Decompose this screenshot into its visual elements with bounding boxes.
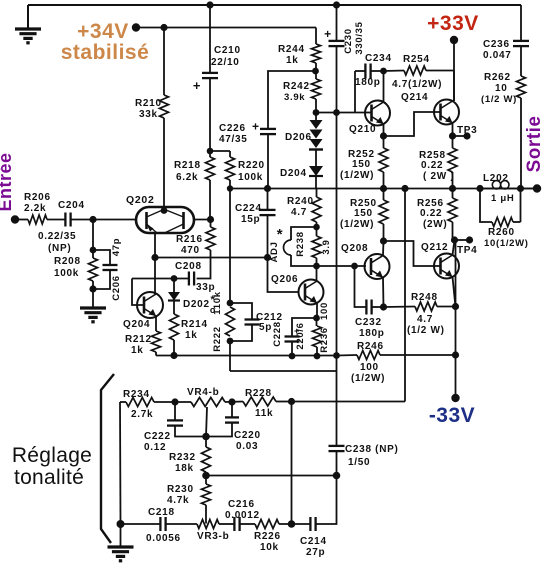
svg-text:C208: C208 (175, 261, 202, 272)
svg-text:10: 10 (495, 83, 508, 94)
svg-text:R212: R212 (125, 334, 152, 345)
svg-text:VR4-b: VR4-b (187, 387, 219, 398)
node +33V terminal (450, 36, 458, 44)
node diode top (313, 109, 320, 116)
wire C238 lower (336, 451, 338, 475)
wire R208 lower (92, 281, 94, 289)
wire Q214 emitter (452, 123, 454, 136)
wire R234 left drop (119, 402, 122, 524)
resistor R206 2.2k (28, 215, 47, 224)
svg-text:6.2k: 6.2k (176, 172, 198, 183)
wire Q204 emitter (155, 316, 157, 331)
capacitor C212 5p (230, 303, 252, 319)
node R222 top (227, 300, 234, 307)
wire C208 left (132, 278, 189, 280)
svg-text:33k: 33k (139, 109, 158, 120)
svg-text:10k: 10k (260, 542, 279, 553)
svg-text:330/35: 330/35 (354, 21, 365, 54)
svg-text:(1/2W): (1/2W) (340, 170, 374, 181)
svg-text:C214: C214 (300, 536, 327, 547)
svg-text:TP4: TP4 (457, 245, 477, 256)
inductor L202 1uH (480, 188, 521, 190)
svg-text:4.7: 4.7 (417, 314, 433, 325)
wire R222 lower to tone (229, 341, 231, 371)
wire R220 lower (229, 180, 231, 189)
node feedback top (401, 185, 408, 192)
node C220 top (228, 398, 235, 405)
svg-text:Entrée: Entrée (0, 152, 15, 211)
node C238 bottom (333, 472, 341, 480)
wire +34V rail (136, 27, 316, 29)
svg-text:R234: R234 (123, 389, 150, 400)
svg-text:3.9: 3.9 (321, 239, 332, 254)
wire Q204 collector (154, 258, 156, 295)
capacitor C216 0.0012 (233, 517, 235, 531)
wire R228 right (276, 401, 292, 403)
svg-text:180p: 180p (355, 77, 381, 88)
svg-text:D206: D206 (285, 132, 312, 143)
svg-text:150: 150 (354, 208, 373, 219)
svg-text:+: + (324, 27, 332, 41)
node output (517, 185, 524, 192)
capacitor C224 15p (267, 189, 269, 210)
wire mid rail (230, 188, 537, 190)
node R250 bottom (380, 237, 387, 244)
svg-text:*: * (277, 226, 284, 243)
node R228 right (288, 398, 295, 405)
svg-text:1k: 1k (185, 330, 198, 341)
resistor R252 150 1/2W (383, 136, 385, 148)
svg-text:33p: 33p (196, 282, 215, 293)
svg-text:Réglage: Réglage (12, 444, 92, 467)
svg-text:R222: R222 (212, 326, 223, 352)
wire Q214 collector (453, 100, 455, 102)
resistor R250 150 1/2W (383, 189, 385, 201)
wire C218-VR3 (166, 523, 197, 525)
svg-text:R260: R260 (488, 227, 515, 238)
resistor R220 100k (229, 151, 231, 157)
svg-text:R254: R254 (403, 54, 430, 65)
resistor R214 1k (173, 301, 175, 315)
wire R210 upper (163, 28, 165, 96)
wire Q208 base (317, 265, 367, 267)
svg-text:27p: 27p (306, 547, 325, 558)
node Q204 collector (151, 254, 158, 261)
svg-text:47/35: 47/35 (219, 134, 248, 145)
node C230 base link (333, 109, 340, 116)
resistor R236 100 (316, 318, 318, 326)
wire C214 right (316, 476, 337, 525)
wire tone row bottom left (121, 523, 161, 525)
svg-text:C204: C204 (58, 200, 85, 211)
svg-text:R244: R244 (278, 44, 305, 55)
svg-text:C224: C224 (235, 203, 262, 214)
wire R242 lower (315, 99, 317, 113)
wire mirror node rail (155, 257, 268, 259)
node R240-R238 (316, 222, 318, 227)
node R246 right (452, 351, 459, 358)
wire Q212 collector (453, 240, 455, 255)
svg-text:4.7k: 4.7k (167, 495, 189, 506)
svg-text:11k: 11k (255, 408, 273, 419)
svg-text:4.7(1/2W): 4.7(1/2W) (392, 79, 442, 90)
resistor R256 0.22 2W (452, 189, 454, 199)
svg-text:0.12: 0.12 (144, 442, 166, 453)
svg-text:100: 100 (319, 302, 330, 320)
node TP4 (451, 236, 458, 243)
resistor R248 4.7 1/2W (384, 306, 416, 309)
transistor Q210 (365, 101, 390, 126)
wire -33V column (455, 240, 457, 398)
svg-text:R206: R206 (24, 192, 51, 203)
svg-text:R232: R232 (169, 452, 196, 463)
svg-text:18k: 18k (175, 463, 194, 474)
svg-text:Q206: Q206 (271, 274, 298, 285)
wire C224 lower (267, 215, 269, 257)
wire +33V feed (453, 40, 455, 101)
node mid rail left (227, 185, 233, 191)
capacitor C218 0.0056 (159, 517, 161, 531)
svg-text:R214: R214 (181, 319, 208, 330)
wire Q206 emitter (316, 303, 318, 318)
wire input (15, 219, 28, 221)
wire C236-R262 (520, 46, 522, 76)
node R248 right (452, 303, 459, 310)
diode D202 (173, 279, 175, 293)
svg-text:Q212: Q212 (421, 242, 448, 253)
resistor R218 6.2k (209, 155, 211, 157)
node R226-C214 (288, 520, 296, 528)
node R222 bottom (227, 338, 234, 345)
svg-text:L202: L202 (483, 173, 509, 184)
resistor R212 1k (152, 331, 161, 352)
resistor R228 11k (243, 397, 276, 406)
svg-text:Q202: Q202 (126, 194, 155, 206)
node C206 top (90, 247, 97, 254)
wire Q208-Q212 link (384, 241, 441, 266)
svg-text:D204: D204 (280, 168, 307, 179)
wire Q208 emitter (382, 278, 385, 307)
wire VR3-C216 (219, 523, 234, 525)
bracket tone section (101, 374, 114, 543)
node R244-R242 (312, 68, 319, 75)
svg-text:R248: R248 (411, 292, 438, 303)
node input-R208 (89, 216, 96, 223)
node top rail C210 (206, 1, 213, 8)
ground input (92, 289, 94, 308)
wire VR4 wiper (206, 407, 207, 437)
capacitor C228 220/6 (292, 318, 317, 336)
svg-text:R208: R208 (54, 256, 81, 267)
svg-text:tonalité: tonalité (14, 466, 84, 489)
svg-text:Q214: Q214 (401, 92, 428, 103)
wire Q208 collector (382, 241, 385, 255)
svg-text:100k: 100k (54, 268, 79, 279)
svg-text:0.047: 0.047 (483, 50, 512, 61)
node C230 top (333, 1, 340, 8)
svg-text:C222: C222 (144, 431, 171, 442)
transistor Q212 (434, 254, 459, 279)
wire R216 lower (197, 250, 211, 279)
svg-text:-33V: -33V (429, 404, 475, 427)
svg-text:(1/2 W): (1/2 W) (481, 94, 517, 105)
svg-text:2.7k: 2.7k (131, 409, 153, 420)
wire ground top rail (28, 4, 521, 6)
capacitor C204 0.22/35 NP (64, 213, 66, 227)
capacitor C238 NP 1/50 (329, 445, 345, 447)
svg-text:R236: R236 (319, 327, 330, 353)
node R218 top (207, 148, 214, 155)
wire R262 lower (520, 98, 522, 189)
resistor R230 4.7k (205, 476, 207, 485)
svg-text:C218: C218 (148, 507, 175, 518)
wire L202 loop (480, 189, 492, 223)
svg-text:R216: R216 (176, 234, 203, 245)
svg-text:150: 150 (352, 159, 371, 170)
resistor R240 4.7 (316, 189, 318, 198)
node Q202 collector top (161, 207, 168, 214)
node R238 bottom (313, 263, 320, 270)
svg-text:Sortie: Sortie (524, 116, 545, 173)
resistor R234 2.7k (126, 398, 154, 407)
svg-text:Q210: Q210 (349, 124, 376, 135)
resistor R242 3.9k (315, 71, 317, 79)
wire R234-VR4 (154, 401, 191, 403)
svg-text:R240: R240 (287, 196, 314, 207)
transistor Q208 (365, 254, 390, 279)
svg-text:R242: R242 (283, 81, 310, 92)
node R236 bottom (314, 353, 321, 360)
node Q210 emitter (380, 132, 387, 139)
wire right top (520, 5, 522, 41)
svg-text:(1/2W): (1/2W) (351, 373, 385, 384)
node +34V terminal (132, 23, 140, 31)
capacitor C220 0.03 (231, 402, 233, 417)
capacitor C206 47p loop (93, 250, 110, 265)
wire C226 top link (268, 71, 315, 129)
capacitor C210 22/10 (202, 72, 218, 74)
wire feedback bottom drop (291, 402, 293, 525)
wire R206-C204 (47, 219, 65, 221)
resistor R232 18k (205, 437, 207, 448)
wire R244 top (315, 28, 317, 45)
capacitor C236 0.047 (513, 40, 529, 42)
svg-text:C210: C210 (214, 45, 241, 56)
svg-text:47p: 47p (111, 238, 122, 256)
capacitor C234 180p (354, 71, 356, 113)
wire C230 lower (336, 46, 338, 355)
svg-text:R246: R246 (357, 341, 384, 352)
wire Q210 base (366, 112, 372, 114)
wire Q202 emitter right (194, 219, 211, 221)
svg-text:(2W): (2W) (423, 219, 447, 230)
node wiper junction (202, 433, 210, 441)
svg-text:0.22/35: 0.22/35 (38, 231, 76, 242)
wire R242 to Q210 base (316, 112, 366, 114)
resistor R244 1k (312, 44, 321, 63)
node C234-R254 (380, 68, 387, 75)
wire C216-R226 (240, 523, 255, 525)
resistor R226 10k (255, 520, 279, 529)
svg-text:C236: C236 (483, 39, 510, 50)
node ground mid-left (89, 285, 96, 292)
svg-text:Q208: Q208 (341, 243, 368, 254)
wire R212 lower (155, 352, 157, 356)
svg-text:R228: R228 (245, 388, 272, 399)
svg-text:+: + (252, 120, 260, 134)
diode D204 (315, 150, 317, 167)
node C224 top (264, 185, 271, 192)
capacitor C226 47/35 (260, 128, 276, 130)
svg-text:+34V: +34V (77, 20, 129, 43)
svg-text:0.0056: 0.0056 (146, 533, 181, 544)
svg-text:100k: 100k (238, 172, 263, 183)
ADJ loop (291, 227, 317, 240)
wire Q210 emitter (383, 124, 385, 136)
svg-text:C220: C220 (234, 430, 261, 441)
wire Q210 collector (383, 71, 385, 102)
svg-text:R226: R226 (254, 531, 281, 542)
svg-text:220/6: 220/6 (295, 322, 306, 349)
transistor Q204 (137, 292, 163, 318)
wire Q204 base (132, 279, 144, 306)
node C238 column (333, 352, 340, 359)
svg-text:2.2k: 2.2k (24, 203, 46, 214)
svg-text:TP3: TP3 (457, 125, 477, 136)
node tone ground (117, 520, 125, 528)
capacitor C232 180p (355, 266, 367, 307)
wire VR4-R228 (225, 401, 243, 404)
node Q206 emitter (313, 315, 320, 322)
svg-text:0.0012: 0.0012 (225, 510, 260, 521)
node input terminal (11, 215, 19, 223)
wire R214 lower (173, 340, 175, 356)
wire feedback vertical (404, 189, 406, 402)
svg-text:R210: R210 (135, 98, 162, 109)
node Sortie terminal (533, 184, 541, 192)
node -33V terminal (451, 394, 459, 402)
svg-text:(1/2 W): (1/2 W) (407, 325, 445, 336)
svg-text:10(1/2W): 10(1/2W) (484, 238, 529, 249)
wire Q202 bottom pin (154, 233, 156, 258)
wire mid tone row (206, 475, 337, 477)
wire R244 lower (315, 63, 317, 71)
svg-text:1/50: 1/50 (348, 457, 370, 468)
node R252 bottom (380, 185, 387, 192)
svg-text:1 μH: 1 μH (491, 193, 514, 204)
svg-text:1k: 1k (286, 55, 299, 66)
svg-text:4.7: 4.7 (291, 207, 307, 218)
svg-text:0.22: 0.22 (421, 160, 443, 171)
resistor R222 110k (226, 307, 235, 336)
capacitor C230 330/35 (329, 40, 345, 42)
svg-text:180p: 180p (359, 328, 385, 339)
node C222 top (171, 398, 178, 405)
svg-text:(NP): (NP) (48, 243, 71, 254)
wire Q212 emitter (453, 277, 456, 307)
resistor R254 4.7 1/2W (384, 70, 405, 73)
svg-text:(1/2W): (1/2W) (340, 219, 374, 230)
wire R210 lower (163, 118, 165, 209)
svg-text:o: o (210, 305, 216, 315)
capacitor C222 0.12 (174, 402, 176, 420)
diode D206 x3 (315, 113, 317, 121)
potentiometer VR4-b (191, 398, 225, 407)
svg-text:C238 (NP): C238 (NP) (345, 444, 399, 455)
resistor R260 10 1/2W (492, 218, 513, 227)
svg-text:1k: 1k (131, 345, 144, 356)
node L202 left (476, 185, 483, 192)
wire C204 out (71, 219, 136, 221)
svg-text:100: 100 (360, 362, 379, 373)
wire R222 upper (229, 189, 231, 304)
svg-text:C234: C234 (365, 53, 392, 64)
node Q206 base drop (264, 254, 271, 261)
transistor Q206 (299, 280, 324, 305)
wire D204 lower (315, 177, 317, 189)
node Q208 emitter (380, 303, 387, 310)
node R214 bottom (170, 352, 177, 359)
node D202 top (171, 275, 178, 282)
node R232 bottom (205, 472, 207, 476)
svg-text:0.03: 0.03 (236, 441, 258, 452)
svg-text:C232: C232 (355, 317, 382, 328)
node R210 top (160, 24, 167, 31)
svg-text:0.22: 0.22 (420, 208, 442, 219)
svg-text:5p: 5p (259, 322, 272, 333)
resistor R262 10 1/2W (517, 76, 526, 98)
wire rail to R246 (337, 354, 357, 357)
svg-text:C228: C228 (272, 321, 283, 347)
svg-text:R220: R220 (238, 160, 265, 171)
node C228 bottom (289, 353, 296, 360)
svg-text:( 2W ): ( 2W ) (423, 171, 454, 182)
wire R208 upper (92, 220, 94, 259)
capacitor C208 33p (188, 272, 190, 286)
svg-text:+33V: +33V (427, 12, 479, 35)
wire C210 lower (209, 79, 211, 155)
resistor R246 100 1/2W (357, 351, 380, 360)
transistor Q214 (434, 100, 459, 125)
wire R218-R220 link (210, 150, 230, 152)
svg-text:470: 470 (181, 245, 200, 256)
ground top-left (27, 5, 29, 29)
svg-text:VR3-b: VR3-b (197, 531, 229, 542)
svg-text:C226: C226 (219, 123, 246, 134)
resistor R216 470 (210, 220, 212, 228)
resistor R210 33k (160, 95, 169, 118)
wire tone row left (120, 401, 126, 403)
svg-text:R218: R218 (174, 160, 201, 171)
svg-text:D202: D202 (183, 299, 210, 310)
wire R246 right (380, 354, 456, 356)
svg-text:C216: C216 (228, 499, 255, 510)
ground tone (120, 524, 122, 547)
wire C230 upper (336, 5, 338, 41)
resistor R208 100k (89, 258, 98, 281)
wire R218 lower (209, 180, 211, 220)
capacitor C214 27p (309, 517, 311, 531)
svg-text:C230: C230 (343, 28, 354, 54)
svg-text:22/10: 22/10 (211, 57, 240, 68)
wire R226 right (279, 523, 310, 525)
svg-text:C206: C206 (111, 275, 122, 301)
svg-text:Q204: Q204 (123, 319, 150, 330)
resistor R238 adjustable (316, 227, 318, 236)
node Q208 base (351, 263, 358, 270)
svg-text:R230: R230 (167, 484, 194, 495)
wire C226 lower (267, 134, 269, 188)
